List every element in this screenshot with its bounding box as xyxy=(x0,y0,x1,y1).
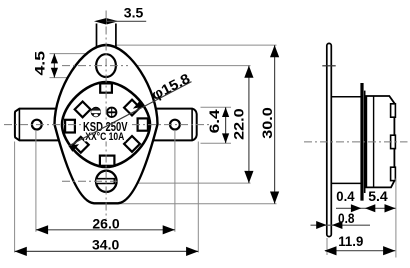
side view rib notch middle xyxy=(391,135,396,148)
svg-text:4.5: 4.5 xyxy=(32,51,48,76)
dimension 30.0 line xyxy=(274,45,276,204)
side view top joint line xyxy=(331,96,360,98)
side view bracket plate xyxy=(327,43,332,236)
knockout top rect xyxy=(100,83,112,92)
knockout diamond upper-right xyxy=(124,100,140,116)
screw terminal right xyxy=(107,108,116,117)
dimension 4.5 line xyxy=(53,54,55,78)
dimension 4.5 arrows xyxy=(51,54,58,64)
dimension 22.0 arrows xyxy=(244,66,253,78)
left terminal ear xyxy=(15,109,62,141)
svg-text:30.0: 30.0 xyxy=(259,107,275,139)
side view flange second line xyxy=(364,91,366,193)
side view flange rim bar xyxy=(360,83,363,201)
left mounting hole in ear xyxy=(32,120,42,130)
right mounting hole in ear xyxy=(170,120,180,130)
extension line right hole 26.0 xyxy=(174,130,176,232)
dimension 6.4 arrows xyxy=(222,107,229,117)
svg-text:11.9: 11.9 xyxy=(338,233,363,249)
dimension 34.0 arrows xyxy=(15,247,27,256)
knockout left rect xyxy=(65,120,75,133)
dimension phi15.8 arrow lower-left xyxy=(69,144,80,152)
extension line left hole 26.0 xyxy=(35,130,37,232)
extension line right edge 34.0 xyxy=(197,142,199,253)
slot in bottom hole xyxy=(96,179,114,184)
side extension line 11.9 left xyxy=(326,238,328,255)
extension line 6.4 bottom xyxy=(201,142,232,144)
svg-text:XX°C 10A: XX°C 10A xyxy=(85,131,124,143)
dimension 26.0 arrows xyxy=(36,225,48,234)
extension line 4.5 bottom xyxy=(50,77,108,79)
side view hole tick xyxy=(322,65,335,67)
dimension 22.0 line xyxy=(248,66,250,184)
extension line 30.0 top xyxy=(116,44,277,46)
dimension 11.9 line xyxy=(325,250,395,252)
side view rib notch top xyxy=(391,104,396,117)
extension line 30.0 bottom xyxy=(116,203,277,205)
dimension 11.9 arrows xyxy=(324,246,336,255)
screw terminal left xyxy=(91,107,100,116)
side view cap body xyxy=(366,96,394,187)
mounting tab at top xyxy=(96,24,98,48)
side view rib notch bottom xyxy=(391,167,396,180)
dimension 5.4 arrow xyxy=(385,204,396,212)
dimension phi15.8 leader line xyxy=(69,82,192,146)
dimension 0.8 arrows xyxy=(316,221,326,229)
centerline vertical xyxy=(105,11,107,220)
svg-text:6.4: 6.4 xyxy=(207,109,222,134)
label KSD 250V xyxy=(82,122,129,132)
dimension 3.5 arrows xyxy=(94,18,106,24)
dimension 30.0 arrows xyxy=(270,45,279,57)
side view centerline xyxy=(304,141,408,143)
side view bottom joint line xyxy=(331,182,360,184)
centerline bottom hole xyxy=(62,180,120,182)
top mounting hole xyxy=(96,54,116,77)
knockout diamond lower-right xyxy=(124,136,140,152)
svg-text:0.4: 0.4 xyxy=(336,188,354,204)
extension line left edge 34.0 xyxy=(14,142,16,253)
knockout bottom rect xyxy=(100,156,115,166)
dimension 0.4/5.4 line xyxy=(336,207,396,209)
dimension 26.0 line xyxy=(36,229,175,231)
dimension phi15.8 arrow upper-right xyxy=(133,101,144,109)
body flange outline xyxy=(55,45,158,203)
svg-text:5.4: 5.4 xyxy=(368,188,388,204)
centerline horizontal xyxy=(4,124,210,126)
knockout diamond lower-left xyxy=(73,137,89,153)
extension line 6.4 top xyxy=(201,106,232,108)
side view cap inner line xyxy=(373,96,375,187)
right terminal ear xyxy=(150,109,197,141)
dimension 3.5 line xyxy=(106,20,146,22)
extension line 22.0 bottom (hole centerline) xyxy=(120,182,251,184)
svg-text:26.0: 26.0 xyxy=(92,215,119,231)
knockout diamond upper-left xyxy=(75,102,91,118)
knockout right rect xyxy=(138,118,148,130)
cap circle (phi 15.8) xyxy=(62,82,150,167)
dimension 0.4 arrows xyxy=(351,204,361,212)
dimension 0.8 leader line xyxy=(311,224,371,226)
label XX C 10A xyxy=(84,133,126,142)
dimension 6.4 line xyxy=(225,107,227,143)
svg-text:3.5: 3.5 xyxy=(124,4,144,20)
svg-text:22.0: 22.0 xyxy=(230,108,246,140)
bottom mounting hole xyxy=(96,171,117,192)
centerline top hole xyxy=(62,65,128,67)
dimension 34.0 line xyxy=(15,250,199,252)
side extension line cap right xyxy=(395,179,397,258)
svg-text:34.0: 34.0 xyxy=(92,236,119,252)
extension line 4.5 top xyxy=(50,53,98,55)
extension line 22.0 top (hole centerline) xyxy=(128,65,251,67)
